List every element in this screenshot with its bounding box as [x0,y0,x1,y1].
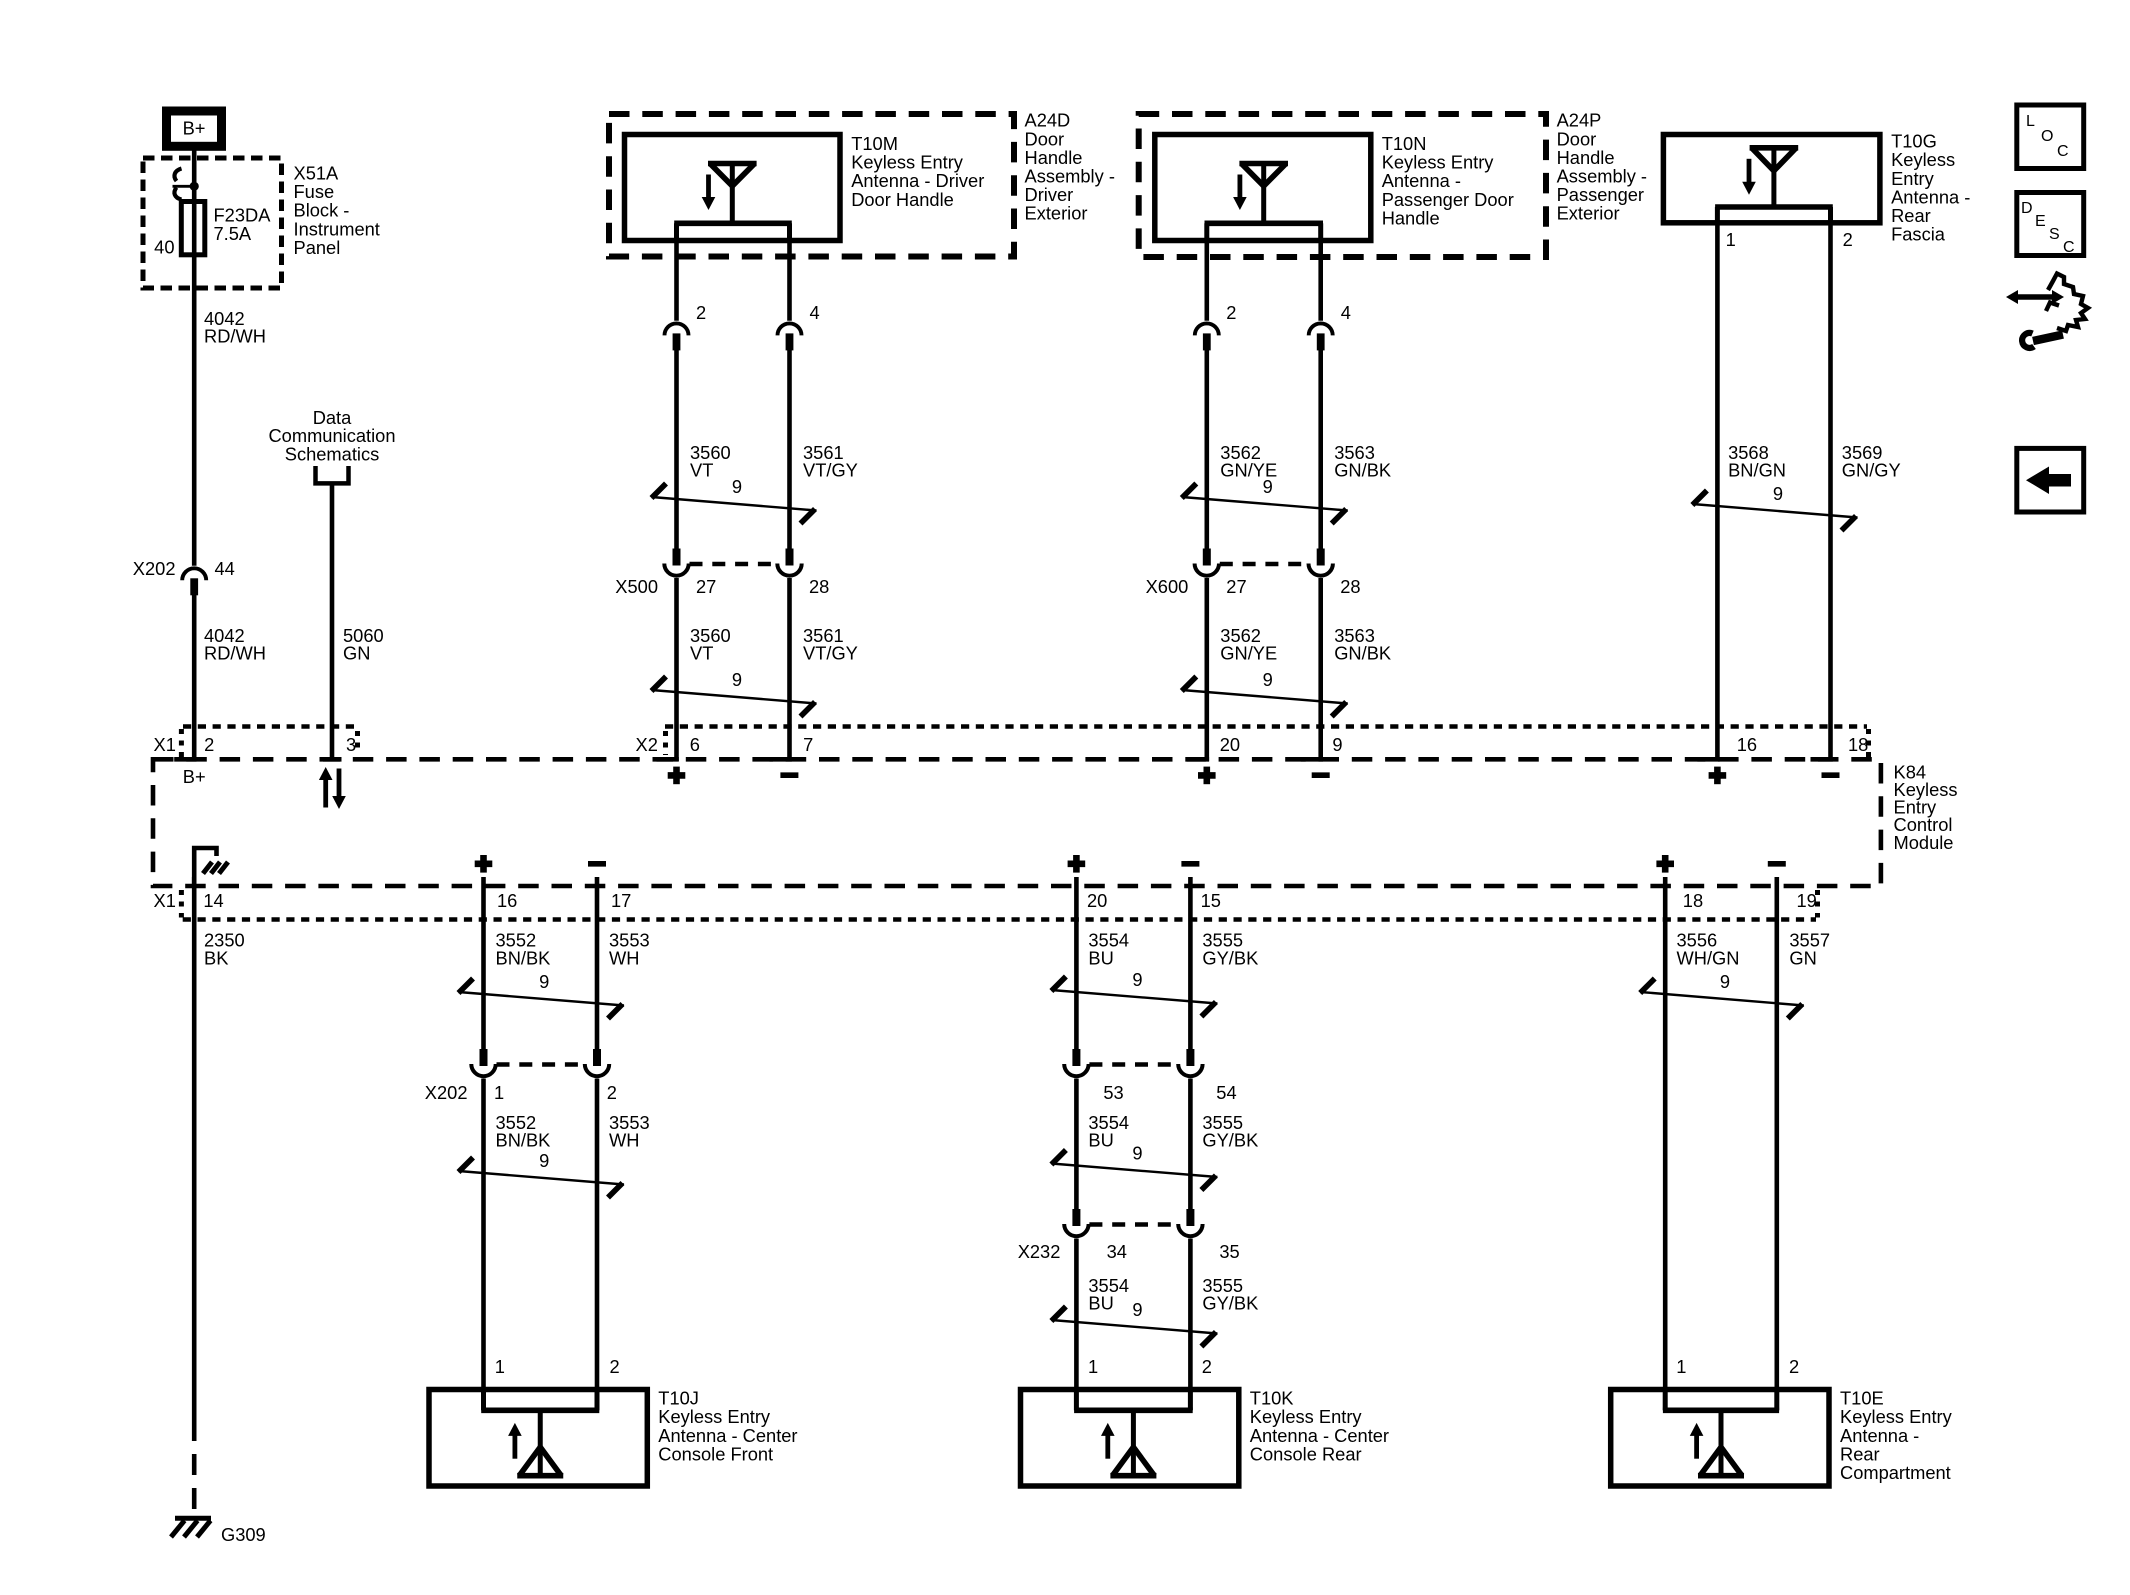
svg-text:X2: X2 [636,734,658,755]
svg-text:27: 27 [1226,576,1246,597]
svg-text:VT: VT [690,460,713,481]
svg-text:Console Front: Console Front [658,1443,773,1464]
svg-text:O: O [2041,128,2053,145]
svg-text:54: 54 [1216,1082,1236,1103]
svg-text:9: 9 [1263,476,1273,497]
svg-text:VT/GY: VT/GY [803,460,858,481]
svg-text:18: 18 [1683,890,1703,911]
svg-text:X600: X600 [1146,576,1189,597]
svg-text:B+: B+ [183,766,206,787]
svg-text:Console Rear: Console Rear [1250,1443,1362,1464]
svg-text:1: 1 [495,1356,505,1377]
svg-text:GN/BK: GN/BK [1334,460,1391,481]
svg-text:B+: B+ [183,118,206,139]
svg-text:9: 9 [1332,734,1342,755]
svg-text:Door Handle: Door Handle [851,189,954,210]
svg-text:9: 9 [732,476,742,497]
svg-text:X202: X202 [425,1082,468,1103]
svg-text:D: D [2021,200,2033,217]
svg-text:GN/GY: GN/GY [1842,460,1901,481]
svg-text:6: 6 [690,734,700,755]
svg-text:53: 53 [1103,1082,1123,1103]
svg-text:BN/BK: BN/BK [496,1130,551,1151]
svg-text:2: 2 [696,302,706,323]
svg-text:X1: X1 [154,890,176,911]
svg-text:7.5A: 7.5A [214,223,252,244]
svg-text:9: 9 [1773,483,1783,504]
svg-text:17: 17 [611,890,631,911]
svg-text:9: 9 [1720,971,1730,992]
svg-text:20: 20 [1220,734,1240,755]
svg-text:1: 1 [1088,1356,1098,1377]
svg-text:GY/BK: GY/BK [1202,947,1258,968]
svg-text:Exterior: Exterior [1557,203,1620,224]
svg-text:Module: Module [1894,832,1954,853]
svg-text:Handle: Handle [1382,207,1440,228]
svg-text:Schematics: Schematics [285,443,380,464]
svg-text:9: 9 [1132,969,1142,990]
svg-text:44: 44 [215,558,235,579]
svg-text:X202: X202 [133,558,176,579]
svg-text:16: 16 [1737,734,1757,755]
svg-text:15: 15 [1201,890,1221,911]
svg-text:7: 7 [803,734,813,755]
svg-text:1: 1 [1726,229,1736,250]
svg-text:14: 14 [203,890,223,911]
svg-text:X232: X232 [1018,1241,1061,1262]
svg-text:19: 19 [1797,890,1817,911]
svg-text:16: 16 [497,890,517,911]
svg-text:VT/GY: VT/GY [803,643,858,664]
svg-text:BK: BK [204,947,228,968]
svg-text:1: 1 [1676,1356,1686,1377]
svg-text:2: 2 [1226,302,1236,323]
svg-text:GN/YE: GN/YE [1220,643,1277,664]
svg-text:18: 18 [1848,734,1868,755]
svg-text:BU: BU [1088,1293,1113,1314]
svg-text:Compartment: Compartment [1840,1462,1951,1483]
svg-text:X500: X500 [615,576,658,597]
svg-text:35: 35 [1219,1241,1239,1262]
svg-text:1: 1 [494,1082,504,1103]
svg-text:GY/BK: GY/BK [1202,1130,1258,1151]
svg-text:VT: VT [690,643,713,664]
svg-text:4: 4 [810,302,820,323]
svg-text:S: S [2049,226,2060,243]
svg-text:Panel: Panel [294,237,341,258]
svg-text:GN: GN [1789,947,1816,968]
svg-text:WH/GN: WH/GN [1677,947,1740,968]
svg-text:9: 9 [539,1150,549,1171]
svg-text:GN: GN [343,643,370,664]
svg-text:GY/BK: GY/BK [1202,1293,1258,1314]
svg-text:2: 2 [204,734,214,755]
svg-text:Exterior: Exterior [1025,203,1088,224]
svg-text:4: 4 [1341,302,1351,323]
svg-text:2: 2 [610,1356,620,1377]
svg-text:20: 20 [1087,890,1107,911]
svg-text:9: 9 [732,669,742,690]
svg-text:L: L [2026,113,2035,130]
svg-text:34: 34 [1107,1241,1127,1262]
svg-text:28: 28 [809,576,829,597]
svg-text:X1: X1 [154,734,176,755]
svg-text:Fascia: Fascia [1891,224,1946,245]
svg-text:3: 3 [346,734,356,755]
svg-text:C: C [2057,143,2069,160]
svg-text:9: 9 [1132,1299,1142,1320]
svg-text:9: 9 [1132,1143,1142,1164]
svg-text:RD/WH: RD/WH [204,326,266,347]
svg-text:BN/GN: BN/GN [1728,460,1786,481]
svg-text:2: 2 [607,1082,617,1103]
svg-text:WH: WH [609,1130,639,1151]
svg-text:2: 2 [1202,1356,1212,1377]
svg-text:BU: BU [1088,1130,1113,1151]
svg-text:G309: G309 [221,1524,266,1545]
svg-text:27: 27 [696,576,716,597]
svg-text:GN/BK: GN/BK [1334,643,1391,664]
svg-text:BU: BU [1088,947,1113,968]
svg-text:2: 2 [1789,1356,1799,1377]
svg-text:28: 28 [1340,576,1360,597]
svg-text:9: 9 [539,971,549,992]
svg-text:9: 9 [1263,669,1273,690]
svg-text:2: 2 [1843,229,1853,250]
svg-text:40: 40 [154,237,174,258]
svg-text:RD/WH: RD/WH [204,643,266,664]
svg-text:WH: WH [609,947,639,968]
svg-text:C: C [2063,239,2075,256]
svg-text:E: E [2035,213,2046,230]
svg-text:BN/BK: BN/BK [496,947,551,968]
